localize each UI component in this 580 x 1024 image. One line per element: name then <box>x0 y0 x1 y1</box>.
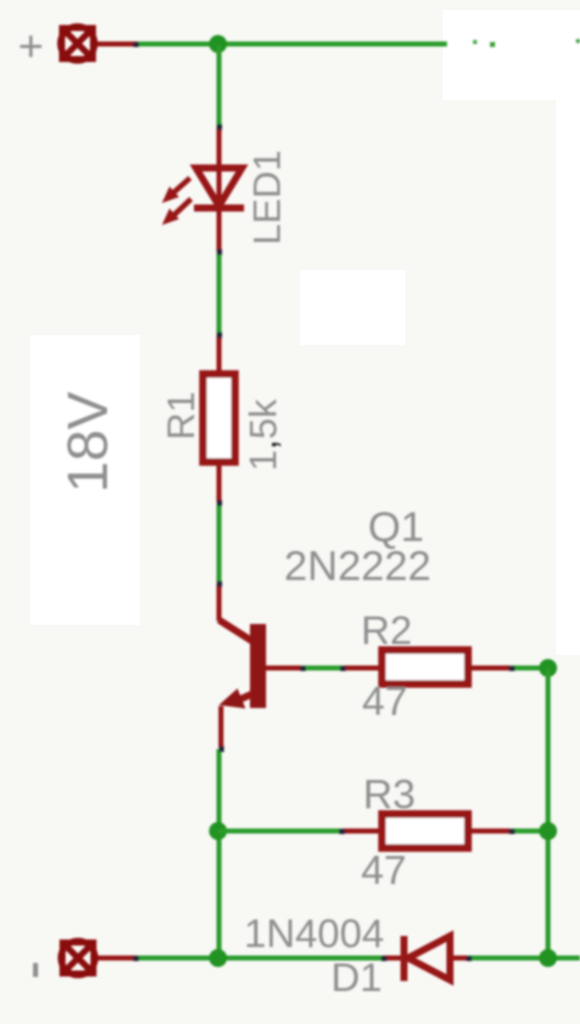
svg-text:R3: R3 <box>363 771 415 817</box>
wire: green net base to R2 <box>302 666 344 671</box>
wire: R1 top pin red <box>217 334 222 374</box>
wire: D1 right pin red <box>450 956 469 961</box>
node: bottom right junction <box>539 949 557 967</box>
label R3 <box>363 771 415 817</box>
label Q1 <box>368 503 424 550</box>
value 1,5k (rotated) <box>243 398 285 471</box>
wire: terminal + red stub <box>96 42 138 47</box>
label D1 <box>331 956 382 1000</box>
wire: bottom terminal red stub <box>97 956 138 961</box>
wire: green net LED to R1 <box>217 253 222 335</box>
wire: green net left to R3 <box>218 829 343 834</box>
wire: LED anode pin red <box>217 126 222 170</box>
wire: R3 right pin red <box>468 829 512 834</box>
wire: R2 left pin red <box>343 666 383 671</box>
value 47 (R2) <box>362 678 408 724</box>
transistor Q1 body bar <box>250 624 266 708</box>
wire: Q1 base pin red <box>266 666 304 671</box>
label - (rotated minus) <box>33 963 38 977</box>
node: R3 right junction <box>539 822 557 840</box>
label LED1 (rotated) <box>247 150 289 245</box>
wire: D1 left pin red <box>383 956 403 961</box>
wire: right rail vertical green <box>546 668 551 958</box>
svg-text:D1: D1 <box>331 956 382 1000</box>
node: top junction <box>209 35 227 53</box>
wire: R3 left pin red <box>342 829 383 834</box>
wire: R1 bottom pin red <box>217 462 222 503</box>
wire: R2 right pin red <box>468 666 512 671</box>
value 47 (R3) <box>361 847 407 893</box>
label R1 (rotated) <box>161 391 203 440</box>
wire color transition marks <box>133 42 515 961</box>
wire: emitter green down to bottom rail <box>217 749 222 958</box>
node: left junction at R3 <box>209 822 227 840</box>
value 2N2222 <box>284 542 431 589</box>
wire: bottom rail green right <box>468 956 580 961</box>
svg-text:R2: R2 <box>361 609 412 653</box>
LED D1 symbol body <box>194 168 244 208</box>
wire: green vertical junction to LED <box>217 46 222 127</box>
svg-text:47: 47 <box>361 847 407 893</box>
white patch right strip <box>556 95 580 655</box>
svg-text:LED1: LED1 <box>247 150 289 245</box>
svg-text:+: + <box>18 22 44 71</box>
white patch middle <box>300 270 405 345</box>
wire: green net R3 to right rail <box>511 829 548 834</box>
svg-text:47: 47 <box>362 678 408 724</box>
label 1N4004 <box>244 912 384 956</box>
transistor Q1 emitter with arrow <box>219 689 252 749</box>
white patch top right <box>443 10 580 100</box>
resistor R2 <box>382 650 468 684</box>
wire: bottom rail green left <box>137 956 384 961</box>
LED light arrow 2 <box>162 199 191 225</box>
white patch left (around 18V) <box>30 335 140 625</box>
resistor R3 <box>382 814 468 848</box>
terminal pad bottom (-) <box>61 941 95 975</box>
LED light arrow 1 <box>162 178 190 203</box>
diode D1 symbol <box>404 936 450 981</box>
node: bottom left junction <box>209 949 227 967</box>
green speck remnants top right <box>473 39 580 47</box>
node: R2 right junction <box>539 659 557 677</box>
label 18V (rotated) <box>56 392 120 493</box>
terminal pad top (+) <box>61 27 95 61</box>
wire: top rail green <box>137 42 447 47</box>
svg-text:2N2222: 2N2222 <box>284 542 431 589</box>
svg-text:18V: 18V <box>56 392 120 493</box>
label + <box>18 22 44 71</box>
label R2 <box>361 609 412 653</box>
wire: green net R2 to right rail <box>511 666 548 671</box>
resistor R1 <box>203 374 235 462</box>
svg-text:R1: R1 <box>161 391 203 440</box>
svg-text:1N4004: 1N4004 <box>244 912 384 956</box>
wire: green net R1 to Q1 <box>217 504 222 584</box>
wire: Q1 collector pin red <box>219 583 252 641</box>
svg-text:1,5k: 1,5k <box>243 398 285 471</box>
wire: LED cathode pin red <box>217 208 222 252</box>
